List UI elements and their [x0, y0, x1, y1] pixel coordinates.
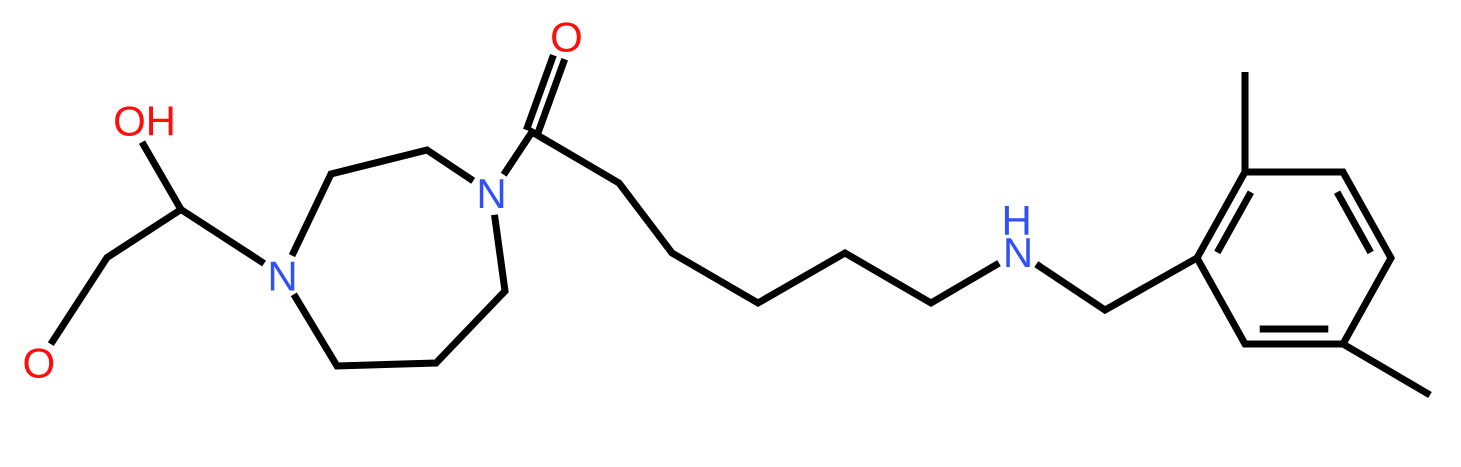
bond C2-N4: [181, 210, 264, 264]
benzene ring outline: [1197, 172, 1391, 344]
svg-text:N: N: [267, 253, 297, 300]
svg-text:N: N: [476, 170, 506, 217]
svg-text:H: H: [1002, 197, 1032, 244]
aromatic inner line C1=C2: [1217, 192, 1251, 252]
bond N1-C(=O) and chain to NH: [504, 132, 999, 303]
bond C2-CH3 (methyl up): [1242, 72, 1249, 172]
diazepane N1-C7-C6-C5-N4 bottom: [294, 215, 505, 366]
svg-text:O: O: [22, 340, 55, 387]
bonds C2-CH2-O(carbonyl): [51, 210, 181, 345]
svg-text:O: O: [113, 98, 146, 145]
aromatic inner line C5=C6: [1260, 326, 1329, 333]
bond NH-CH2-aryl: [1036, 258, 1197, 310]
carbonyl C=O line B: [526, 55, 553, 130]
bond C5-CH3 (methyl down-right): [1343, 344, 1430, 395]
svg-text:O: O: [550, 14, 583, 61]
svg-text:H: H: [146, 98, 176, 145]
carbonyl C=O line A: [538, 59, 565, 134]
diazepane N4-C3-C2-N1 top: [292, 150, 473, 256]
bond O(H)-C2: [142, 142, 181, 209]
aromatic inner line C3=C4: [1337, 192, 1371, 252]
